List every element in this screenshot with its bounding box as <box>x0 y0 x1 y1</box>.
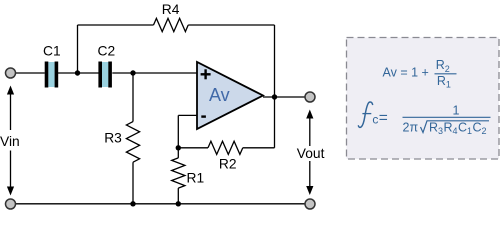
svg-text:Vin: Vin <box>0 134 20 149</box>
svg-text:1: 1 <box>453 104 460 118</box>
svg-text:C: C <box>473 121 482 135</box>
svg-text:Av: Av <box>209 85 230 105</box>
svg-text:Av = 1 +: Av = 1 + <box>383 66 429 80</box>
svg-text:R: R <box>436 58 445 72</box>
svg-text:R: R <box>444 121 453 135</box>
svg-text:R: R <box>437 74 446 88</box>
svg-text:R: R <box>429 121 438 135</box>
svg-text:R3: R3 <box>104 131 122 146</box>
svg-text:Vout: Vout <box>297 146 325 161</box>
svg-text:c: c <box>372 112 378 126</box>
svg-text:2: 2 <box>482 126 487 136</box>
svg-text:3: 3 <box>438 126 443 136</box>
svg-text:4: 4 <box>453 126 458 136</box>
svg-text:R2: R2 <box>219 157 237 172</box>
svg-text:=: = <box>379 109 388 126</box>
svg-text:2π: 2π <box>403 121 419 135</box>
svg-text:R4: R4 <box>162 2 180 17</box>
svg-text:1: 1 <box>467 126 472 136</box>
svg-text:C2: C2 <box>98 44 116 59</box>
svg-text:C1: C1 <box>43 44 61 59</box>
svg-text:R1: R1 <box>187 170 205 185</box>
svg-text:C: C <box>458 121 467 135</box>
svg-text:2: 2 <box>445 64 450 74</box>
svg-text:1: 1 <box>446 80 451 90</box>
